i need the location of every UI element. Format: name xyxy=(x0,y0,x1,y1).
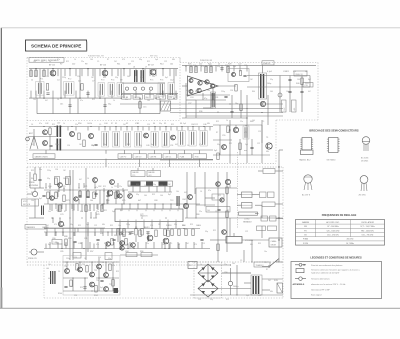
svg-text:5p6: 5p6 xyxy=(86,224,89,226)
svg-text:R89: R89 xyxy=(114,235,117,237)
rectifier bridge dashed box xyxy=(194,261,222,263)
IC1 output wire xyxy=(218,85,236,87)
oscillator transistor T8 xyxy=(233,127,238,132)
svg-text:47n: 47n xyxy=(80,100,83,102)
svg-text:5p6: 5p6 xyxy=(221,231,224,233)
svg-text:GAMME: GAMME xyxy=(302,221,310,224)
svg-text:560: 560 xyxy=(182,225,185,227)
svg-text:C44: C44 xyxy=(139,145,142,147)
svg-text:100: 100 xyxy=(252,120,255,122)
svg-text:22n: 22n xyxy=(240,121,243,123)
svg-text:8p2: 8p2 xyxy=(308,79,311,81)
svg-text:C85: C85 xyxy=(60,251,63,253)
svg-text:33p: 33p xyxy=(205,231,208,233)
svg-text:C30: C30 xyxy=(55,169,58,171)
svg-text:Point de raccordement des plat: Point de raccordement des platines xyxy=(311,264,342,267)
svg-text:C70: C70 xyxy=(60,214,63,216)
svg-text:FI 2: FI 2 xyxy=(68,79,71,81)
svg-text:CDE PO: CDE PO xyxy=(120,156,127,158)
FM coil pair L20 dark xyxy=(57,126,59,138)
svg-text:R97: R97 xyxy=(90,251,93,253)
legend symbol rounded box xyxy=(296,269,304,273)
capacitor C40 xyxy=(94,143,97,145)
svg-text:R90: R90 xyxy=(68,238,71,240)
svg-text:R52: R52 xyxy=(127,144,130,146)
svg-text:CADRE: CADRE xyxy=(148,171,155,174)
svg-text:525 - 1605 kHz: 525 - 1605 kHz xyxy=(327,230,340,232)
FM transistor T4 xyxy=(43,130,48,135)
svg-text:C24: C24 xyxy=(190,97,193,99)
below IC parts xyxy=(123,230,125,237)
svg-text:100: 100 xyxy=(48,211,51,213)
osc coil dark xyxy=(177,196,178,206)
svg-text:220: 220 xyxy=(189,265,192,267)
svg-text:39p: 39p xyxy=(136,194,139,196)
changeur box xyxy=(269,238,282,247)
svg-text:T21: T21 xyxy=(82,264,85,266)
transformer label box xyxy=(254,262,270,267)
transistor T5c xyxy=(89,134,94,139)
svg-text:R44: R44 xyxy=(252,91,255,93)
detector diode D11 xyxy=(133,87,136,90)
audio below wires xyxy=(186,99,196,101)
output network label box 2 xyxy=(303,83,313,88)
svg-text:C15: C15 xyxy=(202,243,205,245)
FM tuner top rail xyxy=(29,126,213,128)
svg-text:68k: 68k xyxy=(207,123,210,125)
IF transformer L4 xyxy=(108,83,115,97)
svg-text:C44: C44 xyxy=(90,286,93,288)
svg-text:10n: 10n xyxy=(60,104,63,106)
ferrite rod connection wires xyxy=(132,186,134,192)
svg-text:22n: 22n xyxy=(78,81,81,83)
svg-text:C4: C4 xyxy=(57,80,59,82)
resistor R61 xyxy=(239,143,241,150)
right small cluster xyxy=(111,239,113,246)
block F transistor T21 xyxy=(78,267,83,272)
svg-text:C80: C80 xyxy=(52,238,55,240)
power transformer dark bars xyxy=(253,276,254,294)
svg-text:C4: C4 xyxy=(57,99,59,101)
left cluster parts xyxy=(65,239,67,246)
svg-text:10n: 10n xyxy=(264,251,267,253)
svg-text:615 - 735 kHz: 615 - 735 kHz xyxy=(362,235,374,237)
svg-text:C90: C90 xyxy=(224,272,227,274)
transistor T11 xyxy=(58,221,63,226)
capacitor C1 xyxy=(46,92,49,94)
svg-text:R21: R21 xyxy=(147,61,150,63)
svg-text:2N 2905: 2N 2905 xyxy=(361,161,368,163)
FM coil can row 1 xyxy=(102,132,109,148)
svg-text:39p: 39p xyxy=(174,224,177,226)
IC1 input wire xyxy=(182,85,188,87)
svg-text:470: 470 xyxy=(80,211,83,213)
wire stubs texture rows xyxy=(45,183,47,188)
svg-text:C49: C49 xyxy=(146,145,149,147)
svg-text:5p6: 5p6 xyxy=(245,144,248,146)
FI bottom label boxes xyxy=(122,95,132,100)
transistor T9b xyxy=(222,145,227,150)
svg-text:39p: 39p xyxy=(108,258,111,260)
right edge label boxes row3 xyxy=(261,216,268,221)
svg-text:R12: R12 xyxy=(216,121,219,123)
svg-text:R52: R52 xyxy=(80,287,83,289)
page top edge line xyxy=(1,27,400,29)
svg-text:R12: R12 xyxy=(103,186,106,188)
svg-text:R44: R44 xyxy=(91,145,94,147)
svg-text:CDE FM: CDE FM xyxy=(150,156,157,158)
svg-text:10k: 10k xyxy=(55,192,58,194)
AM transistor T12b xyxy=(93,178,98,183)
right edge label box row2 xyxy=(262,202,275,207)
svg-text:R52: R52 xyxy=(286,71,289,73)
row E resistors xyxy=(164,229,166,236)
resistor R2 xyxy=(35,70,37,77)
svg-text:C12: C12 xyxy=(170,80,173,82)
svg-text:R21: R21 xyxy=(104,210,107,212)
svg-text:C15: C15 xyxy=(88,210,91,212)
svg-text:C68: C68 xyxy=(154,200,157,202)
IC1 TAA570 outline xyxy=(115,209,183,222)
svg-text:10k: 10k xyxy=(33,61,36,63)
wire second rail FI block xyxy=(29,97,120,99)
detector rail bottom xyxy=(122,93,178,95)
svg-text:C44: C44 xyxy=(297,79,300,81)
svg-text:C9: C9 xyxy=(168,99,170,101)
detector diode D12 xyxy=(141,87,144,90)
svg-text:T20: T20 xyxy=(64,266,67,268)
svg-text:C44: C44 xyxy=(31,200,34,202)
AM extra stub wires xyxy=(49,204,51,210)
long bus wire 1 xyxy=(120,103,283,105)
svg-text:R21: R21 xyxy=(225,65,228,67)
capacitor C25 xyxy=(224,95,227,97)
svg-text:R80: R80 xyxy=(196,214,199,216)
capacitor C31 xyxy=(288,90,291,92)
svg-text:R44: R44 xyxy=(31,178,34,180)
svg-text:22n: 22n xyxy=(224,264,227,266)
svg-text:C7: C7 xyxy=(92,81,94,83)
resistor R40 xyxy=(301,78,303,85)
svg-text:C64: C64 xyxy=(50,200,53,202)
AM row1 components xyxy=(55,178,57,185)
capacitor C32 xyxy=(300,90,303,92)
svg-text:4k7: 4k7 xyxy=(45,100,48,102)
IF coil L6 dark xyxy=(134,70,135,82)
svg-text:Generateur HF et BF: Generateur HF et BF xyxy=(311,288,330,291)
svg-text:150 - 270 kHz: 150 - 270 kHz xyxy=(327,235,339,237)
svg-text:100: 100 xyxy=(232,263,235,265)
svg-text:R100: R100 xyxy=(58,293,62,295)
svg-text:8p2: 8p2 xyxy=(39,198,42,200)
svg-text:CDE OC: CDE OC xyxy=(165,156,172,158)
svg-text:R21: R21 xyxy=(213,230,216,232)
svg-text:22n: 22n xyxy=(125,99,128,101)
block F top boxes xyxy=(73,253,81,259)
svg-text:39p: 39p xyxy=(103,144,106,146)
FM block vertical stubs xyxy=(67,127,69,131)
audio module box xyxy=(228,69,249,82)
svg-text:R50: R50 xyxy=(78,123,81,125)
svg-text:R12: R12 xyxy=(52,124,55,126)
svg-text:5p6: 5p6 xyxy=(155,59,158,61)
svg-text:R14: R14 xyxy=(160,64,163,66)
svg-text:68k: 68k xyxy=(266,151,269,153)
row E vertical wires xyxy=(49,242,51,249)
svg-text:10k: 10k xyxy=(33,99,36,101)
svg-text:AF 127: AF 127 xyxy=(148,64,154,67)
svg-text:AMPLI. FREQ. INTERMED.: AMPLI. FREQ. INTERMED. xyxy=(34,59,59,62)
legend symbol arrow-circle xyxy=(295,264,306,266)
svg-text:10k: 10k xyxy=(163,145,166,147)
svg-text:APPAREILS: APPAREILS xyxy=(293,283,305,286)
svg-text:560: 560 xyxy=(115,145,118,147)
svg-text:Tensions alternatives: Tensions alternatives xyxy=(311,278,330,281)
volume potentiometer xyxy=(226,237,242,244)
svg-text:39p: 39p xyxy=(270,79,273,81)
svg-text:8p2: 8p2 xyxy=(151,144,154,146)
svg-text:BC 307b: BC 307b xyxy=(361,158,368,160)
svg-text:R31: R31 xyxy=(136,184,139,186)
resistor R1 xyxy=(30,70,32,77)
long bus wire 3 xyxy=(170,112,283,114)
AM dots xyxy=(69,189,70,190)
svg-text:SN 76660: SN 76660 xyxy=(327,160,337,162)
svg-text:22n: 22n xyxy=(119,186,122,188)
svg-text:alimentes sur le secteur 220 V: alimentes sur le secteur 220 V ~ 50 Hz xyxy=(311,283,345,286)
svg-text:C46: C46 xyxy=(203,124,206,126)
svg-text:2k2: 2k2 xyxy=(268,280,271,282)
FM tuner lower rail xyxy=(29,149,213,151)
svg-text:F2: F2 xyxy=(126,123,128,125)
IC package U1 TAA611 xyxy=(302,138,312,151)
svg-text:C9: C9 xyxy=(240,260,242,262)
svg-text:C9: C9 xyxy=(99,124,101,126)
svg-text:GO: GO xyxy=(149,175,152,177)
power extra wires xyxy=(243,250,245,262)
resistor R33 xyxy=(235,85,237,92)
svg-text:TAA 611 B12: TAA 611 B12 xyxy=(299,159,311,162)
svg-text:C44: C44 xyxy=(104,123,107,125)
transistor T6 xyxy=(144,133,149,138)
mid-right column wires xyxy=(217,172,219,262)
svg-text:68k: 68k xyxy=(270,291,273,293)
svg-text:R7: R7 xyxy=(266,269,268,271)
legend symbol circle xyxy=(295,278,306,280)
svg-text:NOTICE: NOTICE xyxy=(23,204,31,206)
svg-text:GAMMES: GAMMES xyxy=(27,226,36,229)
svg-text:C4: C4 xyxy=(187,145,189,147)
svg-text:C72: C72 xyxy=(140,214,143,216)
AM right transistor T15 xyxy=(225,179,230,184)
svg-text:47n: 47n xyxy=(39,123,42,125)
FM coil can row 3 xyxy=(178,131,185,147)
margin join mark xyxy=(0,288,2,309)
svg-text:PLAN: PLAN xyxy=(180,155,185,158)
mid flat module xyxy=(206,207,230,213)
svg-text:FI 6: FI 6 xyxy=(160,80,163,82)
svg-text:47n: 47n xyxy=(57,59,60,61)
tuning gang section CV3 flat xyxy=(239,212,258,215)
svg-text:R12: R12 xyxy=(218,195,221,197)
IF transformer L5 xyxy=(117,83,124,97)
svg-text:AC 187 K: AC 187 K xyxy=(302,194,311,197)
left cluster label box xyxy=(52,240,62,245)
output network wires xyxy=(247,75,310,77)
svg-text:470: 470 xyxy=(54,224,57,226)
resistor R51 xyxy=(83,140,85,147)
AM row wires horizontal xyxy=(44,189,128,191)
svg-text:C9: C9 xyxy=(215,211,217,213)
bus dots xyxy=(229,103,230,104)
svg-text:10n: 10n xyxy=(144,185,147,187)
svg-text:470: 470 xyxy=(122,59,125,61)
capacitor C13 xyxy=(68,104,71,106)
IF coil L7 dark xyxy=(141,70,142,82)
svg-text:FI 80: FI 80 xyxy=(195,156,199,158)
svg-text:Tensions continues mesurees pa: Tensions continues mesurees par rapport … xyxy=(311,269,360,272)
bottom strip extra wires xyxy=(117,236,119,242)
svg-text:10n: 10n xyxy=(207,90,210,92)
FI rail junction dots xyxy=(35,68,36,69)
svg-text:AA119: AA119 xyxy=(144,226,150,229)
svg-text:R29: R29 xyxy=(228,64,231,66)
resistor R5 xyxy=(81,84,83,91)
frequency table xyxy=(296,220,385,246)
svg-text:C22: C22 xyxy=(258,295,261,297)
svg-text:F4: F4 xyxy=(153,123,155,125)
svg-text:1k: 1k xyxy=(63,123,65,125)
FM coil pair L21 dark xyxy=(57,139,59,151)
FM block bottom rail xyxy=(29,158,213,160)
legend box xyxy=(291,262,382,299)
table column lines xyxy=(315,220,317,237)
capacitor C30 xyxy=(288,78,291,80)
svg-text:C22: C22 xyxy=(245,231,248,233)
filter capacitor xyxy=(228,281,232,285)
svg-text:R52: R52 xyxy=(190,224,193,226)
block F transistor T22 xyxy=(90,272,95,277)
svg-text:ACCORD OSC.: ACCORD OSC. xyxy=(326,221,340,224)
FM coil can row 2 xyxy=(151,132,158,148)
svg-text:100: 100 xyxy=(162,244,165,246)
svg-text:BROCHAGE DES SEMI-CONDUCTEURS: BROCHAGE DES SEMI-CONDUCTEURS xyxy=(309,128,359,132)
svg-text:C9: C9 xyxy=(97,61,99,63)
svg-text:100: 100 xyxy=(87,123,90,125)
PU connector xyxy=(31,249,37,255)
svg-text:PUSH PULL BF: PUSH PULL BF xyxy=(200,60,212,62)
svg-text:560: 560 xyxy=(127,76,130,78)
svg-text:8p2: 8p2 xyxy=(48,244,51,246)
svg-text:470: 470 xyxy=(244,132,247,134)
capacitor C14 xyxy=(103,104,106,106)
IC1 upper pins xyxy=(121,204,123,209)
svg-text:REF 2700: REF 2700 xyxy=(150,56,158,58)
svg-text:C30: C30 xyxy=(160,185,163,187)
tuning gang mechanical dashed link xyxy=(237,152,239,228)
svg-text:R44: R44 xyxy=(166,225,169,227)
block F wires xyxy=(63,261,119,263)
svg-text:C22: C22 xyxy=(195,124,198,126)
svg-text:R25: R25 xyxy=(188,64,191,66)
module inner resistor xyxy=(240,71,242,76)
fuse component xyxy=(277,283,283,293)
svg-text:T9: T9 xyxy=(266,137,268,139)
svg-text:R31: R31 xyxy=(195,91,198,93)
svg-text:R52: R52 xyxy=(31,192,34,194)
svg-text:10n: 10n xyxy=(118,225,121,227)
svg-text:68k: 68k xyxy=(186,90,189,92)
svg-text:C4: C4 xyxy=(58,271,60,273)
svg-text:C9: C9 xyxy=(262,121,264,123)
osc coil L28 xyxy=(243,126,249,139)
resistor R24 xyxy=(227,66,229,73)
svg-text:l'aide d'un voltmetre de 20 kΩ: l'aide d'un voltmetre de 20 kΩ/V xyxy=(311,272,340,275)
svg-text:8p2: 8p2 xyxy=(165,77,168,79)
AM row1 small parts xyxy=(49,190,51,197)
svg-text:T22: T22 xyxy=(94,270,97,272)
audio vertical drops from rail xyxy=(185,65,187,71)
mains switch xyxy=(270,259,279,267)
small box pair right of gang xyxy=(260,192,267,198)
svg-text:68k: 68k xyxy=(102,224,105,226)
svg-text:C15: C15 xyxy=(198,299,201,301)
IF transformer L1 xyxy=(36,82,45,96)
resistor R21 xyxy=(195,66,197,73)
transistor T10 output xyxy=(260,101,265,106)
block C bottom-area wires xyxy=(45,150,47,154)
mid vertical wires xyxy=(186,172,188,218)
svg-text:22n: 22n xyxy=(146,243,149,245)
svg-text:C9: C9 xyxy=(120,80,122,82)
coil ladder dark xyxy=(50,271,51,284)
svg-text:R9: R9 xyxy=(85,64,87,66)
wires to gang xyxy=(196,187,237,189)
svg-text:455 kHz: 455 kHz xyxy=(347,239,354,241)
svg-text:10n: 10n xyxy=(39,169,42,171)
svg-text:4k7: 4k7 xyxy=(128,64,131,66)
svg-text:4k7: 4k7 xyxy=(184,192,187,194)
svg-text:C44: C44 xyxy=(160,195,163,197)
svg-text:DET FM: DET FM xyxy=(134,97,141,99)
svg-text:68k: 68k xyxy=(128,185,131,187)
svg-text:560: 560 xyxy=(63,178,66,180)
module inner cap xyxy=(243,74,246,76)
block F label GAMMES D ONDES xyxy=(25,225,46,230)
FI block ladder wires xyxy=(39,69,41,99)
audio small transistors xyxy=(189,79,193,83)
svg-text:FI FM: FI FM xyxy=(303,243,308,245)
svg-text:GO: GO xyxy=(304,235,307,237)
svg-text:SCHEMA DE PRINCIPE: SCHEMA DE PRINCIPE xyxy=(31,44,81,49)
FI block vertical wires xyxy=(30,69,32,77)
svg-text:4k7: 4k7 xyxy=(79,179,82,181)
svg-text:33p: 33p xyxy=(159,123,162,125)
svg-text:10,7 MHz: 10,7 MHz xyxy=(346,243,354,245)
IF transformer L3 xyxy=(98,83,105,97)
svg-text:470: 470 xyxy=(135,123,138,125)
svg-text:R73: R73 xyxy=(66,200,69,202)
svg-text:1k: 1k xyxy=(113,100,115,102)
row E upper connect wires xyxy=(44,227,105,229)
svg-text:33p: 33p xyxy=(217,144,220,146)
resistor R50 xyxy=(78,133,80,140)
svg-text:FI 3: FI 3 xyxy=(101,80,104,82)
svg-text:CHAN-: CHAN- xyxy=(271,240,277,243)
svg-text:C55: C55 xyxy=(222,135,225,137)
row E caps xyxy=(96,238,99,240)
svg-text:10k: 10k xyxy=(176,191,179,193)
